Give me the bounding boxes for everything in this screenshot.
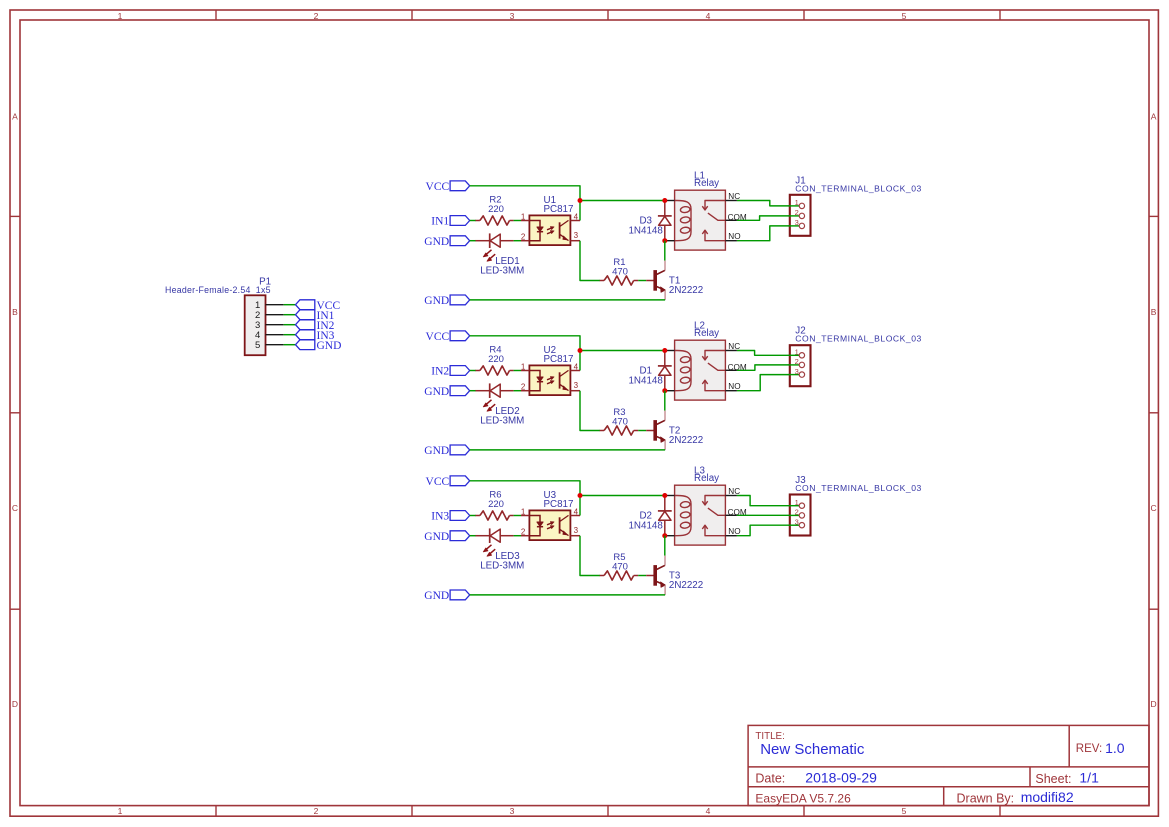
title block text Date <box>755 769 877 785</box>
transistor T1 2N2222 <box>646 261 703 300</box>
wire coil bottom to T2 collector <box>664 391 666 411</box>
svg-text:A: A <box>1151 111 1157 121</box>
title block text Drawn By <box>957 789 1074 806</box>
svg-text:2: 2 <box>521 527 526 536</box>
optocoupler U2 PC817 <box>521 345 580 395</box>
svg-text:EasyEDA V5.7.26: EasyEDA V5.7.26 <box>755 792 851 806</box>
svg-text:GND: GND <box>424 590 449 602</box>
wire node to relay coil <box>580 200 665 202</box>
svg-text:IN2: IN2 <box>431 366 449 378</box>
svg-text:1: 1 <box>521 212 526 221</box>
wire VCC to node <box>470 481 580 516</box>
svg-text:Sheet:: Sheet: <box>1035 772 1071 786</box>
svg-text:D: D <box>1151 699 1157 709</box>
wire LED3 to U3 pin2 <box>514 535 521 537</box>
svg-text:C: C <box>12 503 18 513</box>
svg-text:NC: NC <box>728 342 740 351</box>
wire U3 pin3 down to R5 <box>580 536 600 576</box>
net flag GND at P1 <box>296 340 342 352</box>
svg-text:2: 2 <box>521 382 526 391</box>
svg-text:2N2222: 2N2222 <box>669 285 703 296</box>
diode D1 1N4148 <box>628 351 671 391</box>
svg-text:2: 2 <box>314 11 319 21</box>
net flag GND (emitter) <box>424 445 469 457</box>
svg-text:IN1: IN1 <box>431 216 449 228</box>
svg-text:1: 1 <box>795 198 799 207</box>
svg-text:B: B <box>12 307 18 317</box>
relay L3 <box>665 465 747 545</box>
svg-text:3: 3 <box>574 231 579 240</box>
junction node coil/diode bottom <box>662 388 667 393</box>
svg-text:Date:: Date: <box>755 771 785 785</box>
junction node coil/diode top <box>662 493 667 498</box>
P1 pin 3 stub <box>266 324 284 326</box>
P1 pin 5 stub <box>266 344 284 346</box>
svg-text:modifi82: modifi82 <box>1021 789 1074 805</box>
svg-text:3: 3 <box>795 367 799 376</box>
svg-text:1: 1 <box>118 11 123 21</box>
svg-text:1: 1 <box>795 498 799 507</box>
frame row letters left <box>12 111 18 709</box>
wire VCC to node <box>470 336 580 371</box>
resistor R3 470 <box>600 407 639 435</box>
svg-text:GND: GND <box>424 295 449 307</box>
wire NO to J1 pin3 <box>737 226 799 241</box>
wire R4 to U2 pin1 <box>514 370 521 372</box>
title block text REV <box>1076 740 1125 756</box>
svg-text:PC817: PC817 <box>544 499 574 510</box>
svg-text:2: 2 <box>795 208 799 217</box>
svg-text:A: A <box>12 111 18 121</box>
title block text Sheet <box>1035 770 1099 787</box>
net flag IN3 at P1 <box>296 330 335 342</box>
net flag VCC <box>426 331 470 343</box>
svg-text:4: 4 <box>574 507 579 516</box>
P1 pin 1 stub <box>266 304 284 306</box>
svg-text:GND: GND <box>424 236 449 248</box>
svg-text:3: 3 <box>510 11 515 21</box>
svg-text:5: 5 <box>255 340 260 351</box>
resistor R2 220 <box>476 195 514 226</box>
svg-text:Drawn By:: Drawn By: <box>957 792 1015 806</box>
junction node coil/diode bottom <box>662 533 667 538</box>
svg-text:2N2222: 2N2222 <box>669 580 703 591</box>
junction node VCC/U3 <box>578 493 583 498</box>
svg-text:Header-Female-2.54_1x5: Header-Female-2.54_1x5 <box>165 285 271 295</box>
net flag GND (emitter) <box>424 295 469 307</box>
net flag GND <box>424 386 469 398</box>
transistor T3 2N2222 <box>646 556 703 595</box>
net flag IN3 <box>431 511 469 523</box>
svg-text:470: 470 <box>612 416 628 427</box>
wire R5 to T3 base <box>638 575 646 577</box>
svg-text:2018-09-29: 2018-09-29 <box>805 769 877 785</box>
net flag IN1 at P1 <box>296 310 335 322</box>
wire GND to T3 emitter <box>470 594 665 596</box>
wire P1 pin 3 <box>284 324 296 326</box>
svg-text:VCC: VCC <box>426 476 450 488</box>
frame column numbers bottom <box>118 806 907 816</box>
resistor R6 220 <box>476 490 514 521</box>
svg-text:GND: GND <box>317 340 342 352</box>
wire VCC to node <box>470 186 580 221</box>
frame column ticks bottom <box>216 806 1000 817</box>
svg-text:D: D <box>12 699 18 709</box>
wire coil bottom to T1 collector <box>664 241 666 261</box>
svg-text:2: 2 <box>795 508 799 517</box>
wire GND to LED1 <box>470 240 476 242</box>
net flag IN2 <box>431 366 469 378</box>
wire NC to J1 pin1 <box>737 201 799 206</box>
net flag IN1 <box>431 216 469 228</box>
svg-text:1N4148: 1N4148 <box>628 520 663 531</box>
svg-text:1: 1 <box>118 806 123 816</box>
relay L1 <box>665 170 747 250</box>
wire NC to J3 pin1 <box>737 496 799 506</box>
connector J2 CON_TERMINAL_BLOCK_03 <box>789 326 922 387</box>
svg-text:Relay: Relay <box>694 328 719 339</box>
svg-text:LED-3MM: LED-3MM <box>480 561 524 572</box>
svg-text:NC: NC <box>728 192 740 201</box>
wire COM to J2 pin2 <box>737 365 799 370</box>
P1 pin 2 stub <box>266 314 284 316</box>
optocoupler U3 PC817 <box>521 490 580 540</box>
transistor T2 2N2222 <box>646 411 703 450</box>
connector P1 Header-Female-2.54_1x5 <box>165 277 271 356</box>
svg-text:B: B <box>1151 307 1157 317</box>
wire COM to J3 pin2 <box>737 514 799 516</box>
wire IN2 to R4 <box>470 370 476 372</box>
diode D2 1N4148 <box>628 496 671 536</box>
svg-text:220: 220 <box>488 354 504 365</box>
svg-text:2: 2 <box>314 806 319 816</box>
svg-text:NO: NO <box>728 232 740 241</box>
svg-text:1: 1 <box>795 348 799 357</box>
junction node VCC/U1 <box>578 198 583 203</box>
wire NO to J3 pin3 <box>737 525 799 536</box>
svg-text:220: 220 <box>488 204 504 215</box>
wire P1 pin 2 <box>284 314 296 316</box>
svg-text:220: 220 <box>488 499 504 510</box>
svg-text:CON_TERMINAL_BLOCK_03: CON_TERMINAL_BLOCK_03 <box>795 183 922 193</box>
net flag VCC at P1 <box>296 300 341 312</box>
svg-text:GND: GND <box>424 445 449 457</box>
junction node coil/diode top <box>662 198 667 203</box>
svg-text:GND: GND <box>424 386 449 398</box>
svg-text:3: 3 <box>510 806 515 816</box>
svg-text:1.0: 1.0 <box>1105 740 1125 756</box>
svg-text:PC817: PC817 <box>544 204 574 215</box>
svg-text:C: C <box>1151 503 1157 513</box>
wire NC to J2 pin1 <box>737 351 799 356</box>
wire node to relay coil <box>580 495 665 497</box>
wire R3 to T2 base <box>638 430 646 432</box>
LED LED2 LED-3MM <box>476 383 525 426</box>
junction node coil/diode top <box>662 348 667 353</box>
LED LED1 LED-3MM <box>476 233 525 276</box>
svg-text:3: 3 <box>795 518 799 527</box>
svg-text:2: 2 <box>521 232 526 241</box>
svg-text:3: 3 <box>574 526 579 535</box>
wire R1 to T1 base <box>638 280 646 282</box>
relay L2 <box>665 320 747 400</box>
connector J1 CON_TERMINAL_BLOCK_03 <box>789 175 922 236</box>
wire R2 to U1 pin1 <box>514 220 521 222</box>
resistor R1 470 <box>600 257 639 285</box>
svg-text:4: 4 <box>706 11 711 21</box>
svg-text:LED-3MM: LED-3MM <box>480 266 524 277</box>
wire GND to T1 emitter <box>470 299 665 301</box>
svg-text:470: 470 <box>612 561 628 572</box>
svg-text:5: 5 <box>902 11 907 21</box>
svg-text:PC817: PC817 <box>544 354 574 365</box>
frame row ticks left <box>10 216 20 609</box>
svg-text:470: 470 <box>612 266 628 277</box>
svg-text:1: 1 <box>521 507 526 516</box>
svg-text:Relay: Relay <box>694 178 719 189</box>
junction node coil/diode bottom <box>662 238 667 243</box>
svg-text:1N4148: 1N4148 <box>628 225 663 236</box>
wire NO to J2 pin3 <box>737 375 799 391</box>
svg-text:3: 3 <box>795 218 799 227</box>
svg-text:REV:: REV: <box>1076 743 1102 755</box>
connector J3 CON_TERMINAL_BLOCK_03 <box>789 475 922 536</box>
title block text EasyEDA <box>755 792 851 806</box>
diode D3 1N4148 <box>628 201 671 241</box>
net flag GND <box>424 531 469 543</box>
svg-text:CON_TERMINAL_BLOCK_03: CON_TERMINAL_BLOCK_03 <box>795 334 922 344</box>
wire GND to T2 emitter <box>470 449 665 451</box>
net flag GND (emitter) <box>424 590 469 602</box>
wire coil bottom to T3 collector <box>664 536 666 556</box>
svg-text:4: 4 <box>574 362 579 371</box>
svg-text:2N2222: 2N2222 <box>669 435 703 446</box>
frame column ticks top <box>216 10 1000 20</box>
frame row letters right <box>1151 111 1157 709</box>
resistor R5 470 <box>600 552 639 580</box>
svg-text:VCC: VCC <box>426 331 450 343</box>
LED LED3 LED-3MM <box>476 528 525 571</box>
svg-text:4: 4 <box>574 212 579 221</box>
svg-text:GND: GND <box>424 531 449 543</box>
svg-text:NO: NO <box>728 382 740 391</box>
wire node to relay coil <box>580 350 665 352</box>
svg-text:1N4148: 1N4148 <box>628 375 663 386</box>
wire LED2 to U2 pin2 <box>514 390 521 392</box>
wire R6 to U3 pin1 <box>514 515 521 517</box>
wire U1 pin3 down to R1 <box>580 241 600 281</box>
svg-text:LED-3MM: LED-3MM <box>480 416 524 427</box>
frame row ticks right <box>1149 216 1158 609</box>
svg-text:VCC: VCC <box>426 181 450 193</box>
P1 pin 4 stub <box>266 334 284 336</box>
svg-text:2: 2 <box>795 357 799 366</box>
wire IN1 to R2 <box>470 220 476 222</box>
wire LED1 to U1 pin2 <box>514 240 521 242</box>
net flag IN2 at P1 <box>296 320 335 332</box>
svg-text:4: 4 <box>706 806 711 816</box>
wire GND to LED3 <box>470 535 476 537</box>
title block frame <box>748 725 1149 805</box>
svg-text:New Schematic: New Schematic <box>760 741 865 758</box>
wire GND to LED2 <box>470 390 476 392</box>
frame column numbers top <box>118 11 907 21</box>
resistor R4 220 <box>476 345 514 376</box>
net flag GND <box>424 236 469 248</box>
wire P1 pin 5 <box>284 344 296 346</box>
wire IN3 to R6 <box>470 515 476 517</box>
svg-text:5: 5 <box>902 806 907 816</box>
junction node VCC/U2 <box>578 348 583 353</box>
svg-text:1: 1 <box>521 362 526 371</box>
wire P1 pin 1 <box>284 304 296 306</box>
svg-text:CON_TERMINAL_BLOCK_03: CON_TERMINAL_BLOCK_03 <box>795 483 922 493</box>
svg-text:Relay: Relay <box>694 473 719 484</box>
net flag VCC <box>426 181 470 193</box>
wire P1 pin 4 <box>284 334 296 336</box>
svg-text:NO: NO <box>728 527 740 536</box>
title block text TITLE <box>755 731 865 758</box>
svg-text:NC: NC <box>728 487 740 496</box>
svg-text:3: 3 <box>574 381 579 390</box>
svg-text:1/1: 1/1 <box>1079 770 1099 786</box>
net flag VCC <box>426 476 470 488</box>
wire COM to J1 pin2 <box>737 216 799 220</box>
svg-text:IN3: IN3 <box>431 511 449 523</box>
optocoupler U1 PC817 <box>521 195 580 245</box>
wire U2 pin3 down to R3 <box>580 391 600 431</box>
